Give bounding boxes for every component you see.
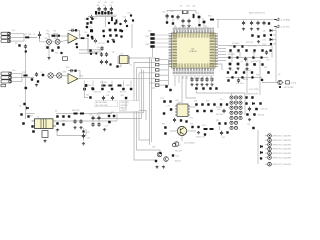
capacitor C55 — [261, 49, 263, 51]
capacitor C22 — [100, 60, 103, 64]
transistor Q2 — [85, 84, 88, 87]
blob — [163, 100, 166, 103]
opto LED D5 — [230, 101, 233, 104]
svg-text:SPKR OUT 6 BLK/RD: SPKR OUT 6 BLK/RD — [273, 157, 292, 159]
wire — [188, 106, 196, 108]
wire — [104, 16, 106, 27]
resistor RN4 — [155, 74, 159, 76]
blob — [251, 34, 254, 37]
svg-text:R34: R34 — [208, 16, 211, 18]
capacitor C58 — [243, 71, 245, 73]
resistor R74 — [204, 128, 208, 130]
capacitor C62 — [101, 88, 104, 91]
svg-text:R80 10K: R80 10K — [175, 151, 183, 153]
blob — [255, 108, 258, 111]
svg-text:C40: C40 — [186, 6, 189, 8]
capacitor C74 — [97, 122, 100, 126]
pot VR1 — [47, 39, 52, 44]
wire — [265, 157, 268, 159]
blob — [25, 87, 28, 90]
loop wire below transformer cluster — [57, 129, 86, 136]
wire — [218, 60, 226, 62]
wire — [85, 92, 89, 98]
svg-text:R93: R93 — [263, 44, 266, 46]
svg-text:Q7: Q7 — [241, 61, 243, 63]
wire — [226, 45, 272, 47]
blob — [164, 126, 167, 129]
blob — [170, 108, 173, 111]
wire — [218, 51, 226, 53]
transistor Q11 yellow circle — [177, 126, 186, 135]
blob — [279, 86, 281, 88]
connector J4 input jack CH2 — [1, 72, 12, 75]
wire — [26, 113, 35, 115]
blob — [87, 34, 89, 36]
svg-text:RA1: RA1 — [146, 35, 150, 38]
wire — [265, 163, 268, 165]
capacitor C53 — [262, 21, 265, 25]
wire — [202, 76, 204, 79]
connector J1 input jack CH1 — [1, 32, 11, 35]
ground — [228, 67, 231, 70]
wire — [265, 144, 268, 146]
diode D22 — [260, 151, 262, 153]
wire — [68, 29, 70, 31]
resistor R40 — [268, 22, 270, 24]
connector J14 jack — [268, 151, 272, 155]
opto LED D20 — [234, 126, 237, 129]
opto LED D9 — [234, 106, 237, 109]
resistor RN3 — [155, 69, 159, 71]
wire — [195, 11, 197, 14]
resistor R76 — [195, 103, 198, 106]
wire — [159, 74, 169, 76]
resistor R100 — [91, 18, 93, 20]
transistor Q8 — [237, 63, 240, 66]
wire — [265, 152, 268, 154]
svg-text:SPI CFG: SPI CFG — [246, 42, 254, 44]
resistor R82 — [245, 102, 248, 105]
wire — [53, 75, 56, 77]
wire — [174, 76, 176, 79]
capacitor C81 — [251, 96, 254, 99]
wire — [159, 69, 169, 71]
resistor R90 — [269, 49, 271, 51]
svg-text:R60 1K: R60 1K — [120, 92, 127, 94]
blob — [210, 110, 213, 113]
wire U1 left pin feeds — [155, 35, 169, 47]
wire — [53, 120, 117, 122]
label net table 2 — [120, 101, 140, 112]
capacitor C32 — [181, 19, 184, 23]
svg-text:VR1: VR1 — [45, 38, 49, 40]
capacitor C95 — [226, 103, 228, 105]
wire — [211, 76, 213, 85]
wire — [231, 52, 233, 62]
svg-text:C92: C92 — [222, 137, 225, 139]
blob — [270, 43, 272, 45]
svg-text:SCL SDA: SCL SDA — [229, 45, 238, 48]
capacitor C14 — [90, 29, 93, 32]
svg-text:C90: C90 — [266, 60, 269, 62]
blob — [227, 79, 229, 81]
capacitor C5 — [60, 52, 62, 54]
svg-text:C62: C62 — [107, 92, 110, 94]
transistor Q4 — [114, 29, 117, 32]
resistor R56 — [209, 87, 212, 90]
resistor R1 — [25, 36, 29, 38]
resistor R104 — [107, 40, 109, 42]
blob — [56, 115, 59, 118]
capacitor CB3 — [200, 77, 203, 81]
ground — [56, 129, 59, 132]
transistor Q15 — [253, 63, 256, 66]
wire — [95, 38, 97, 43]
resistor R33 — [193, 14, 195, 18]
svg-text:R9: R9 — [15, 43, 17, 45]
IC U4 small yellow — [120, 56, 129, 64]
svg-text:X1: X1 — [180, 6, 182, 8]
ground — [210, 83, 213, 86]
svg-text:C72: C72 — [96, 115, 99, 117]
wire — [30, 36, 38, 38]
wire — [159, 59, 169, 61]
resistor R68 — [108, 115, 111, 118]
capacitor C92 — [220, 131, 223, 135]
IC U1 pin names top inside — [173, 34, 213, 38]
opto LED D12 — [234, 111, 237, 114]
IC U1 pin stubs top — [173, 30, 213, 33]
wire U1 to U6 — [181, 76, 183, 104]
capacitor C3 — [94, 39, 97, 43]
wire — [159, 84, 169, 86]
blob — [253, 113, 256, 116]
wire — [273, 30, 276, 32]
resistor R27 — [109, 85, 113, 87]
transistor Q7 — [229, 63, 232, 66]
resistor R49 — [235, 71, 237, 73]
power flag +3.3V — [274, 18, 279, 21]
svg-text:D31: D31 — [263, 39, 266, 41]
resistor R67 — [80, 113, 84, 115]
connector J2 input jack CH1 — [1, 36, 11, 39]
wire — [152, 150, 160, 152]
resistor R83 — [259, 102, 261, 104]
svg-text:C86: C86 — [87, 138, 90, 140]
op-amp U2B — [68, 74, 78, 84]
svg-text:C17 R24: C17 R24 — [98, 43, 105, 45]
svg-text:MUTE /RST: MUTE /RST — [248, 94, 259, 96]
capacitor C11 electrolytic — [104, 7, 107, 12]
wire — [265, 148, 268, 150]
blob — [166, 21, 168, 23]
svg-text:OUT B GND: OUT B GND — [284, 87, 295, 89]
wire — [218, 64, 222, 70]
blob — [260, 157, 262, 159]
svg-text:MUTE: MUTE — [243, 79, 249, 81]
svg-text:C71: C71 — [89, 115, 92, 117]
svg-text:C31: C31 — [176, 19, 179, 21]
wire U1 top pin risers — [176, 27, 208, 31]
capacitor C65 — [111, 96, 114, 100]
connector J3 input jack CH1 — [1, 40, 11, 43]
svg-text:SPKR OUT 1 BLK/RD: SPKR OUT 1 BLK/RD — [273, 135, 292, 137]
wire — [83, 128, 85, 141]
resistor R57 — [169, 89, 171, 91]
svg-text:VR4: VR4 — [63, 72, 67, 74]
ground — [43, 140, 46, 143]
resistor R5 — [81, 37, 85, 39]
wire — [194, 76, 196, 79]
capacitor C77 — [197, 126, 199, 128]
opto LED D10 — [239, 106, 242, 109]
blob — [252, 127, 255, 130]
svg-text:C57: C57 — [230, 70, 233, 72]
resistor R28 — [118, 85, 122, 87]
transistor Q1 — [90, 29, 93, 32]
resistor R84 — [246, 113, 249, 116]
capacitor C104 — [113, 40, 115, 42]
resistor R62 — [125, 97, 128, 100]
resistor R43 — [245, 49, 247, 51]
svg-text:2N2222: 2N2222 — [175, 161, 181, 163]
wire — [21, 74, 23, 82]
resistor R71 — [180, 119, 182, 121]
ground — [190, 83, 193, 86]
wire — [128, 57, 155, 59]
wire — [96, 15, 114, 17]
resistor R3 — [57, 35, 60, 37]
capacitor C91 — [237, 78, 240, 82]
wire — [226, 57, 268, 59]
svg-text:AVDD DVDD 3V3: AVDD DVDD 3V3 — [249, 12, 266, 15]
svg-text:R84 1K: R84 1K — [258, 115, 265, 117]
capacitor C16 — [124, 19, 127, 23]
capacitor C69 — [73, 119, 76, 123]
blob — [165, 85, 168, 88]
svg-text:Q8 BC847: Q8 BC847 — [251, 61, 259, 63]
ground — [242, 28, 245, 31]
resistor R13 — [31, 78, 33, 80]
transformer T1 — [35, 119, 54, 129]
capacitor C31 — [176, 15, 179, 19]
capacitor C102 — [132, 19, 134, 21]
svg-text:R74: R74 — [202, 125, 205, 127]
wire — [190, 76, 192, 79]
svg-text:RA2: RA2 — [146, 43, 150, 46]
capacitor C56 — [244, 57, 247, 61]
svg-text:R42: R42 — [237, 52, 240, 54]
capacitor C72 — [97, 116, 100, 120]
blob — [260, 56, 262, 58]
wire — [275, 26, 277, 82]
wire — [186, 76, 188, 79]
svg-text:R5: R5 — [79, 35, 81, 37]
resistor R4 feedback — [75, 29, 77, 31]
capacitor C90 — [265, 50, 268, 54]
wire — [137, 67, 156, 69]
blob — [82, 130, 84, 132]
wire — [262, 82, 284, 84]
svg-text:R95 220: R95 220 — [216, 114, 223, 116]
capacitor C21 — [105, 52, 108, 56]
blob — [218, 122, 220, 124]
svg-text:VR2: VR2 — [54, 38, 58, 40]
svg-text:R25: R25 — [128, 13, 131, 15]
wire op-amp2 output bus — [78, 78, 156, 80]
resistor RS4 — [150, 45, 154, 48]
op-amp U2A — [68, 33, 78, 43]
opto LED D7 — [239, 101, 242, 104]
capacitor C59 — [241, 76, 243, 78]
blob — [120, 35, 122, 37]
wire — [218, 54, 226, 56]
capacitor C70 — [79, 119, 82, 123]
svg-text:U4: U4 — [112, 52, 114, 54]
IC U1 main processor — [172, 33, 216, 68]
svg-text:R58: R58 — [88, 85, 91, 87]
ground — [111, 102, 114, 105]
wire — [210, 76, 212, 79]
ground — [103, 128, 106, 131]
transistor Q3 — [109, 29, 112, 32]
svg-text:R49 4K7: R49 4K7 — [244, 70, 251, 72]
capacitor C33 — [187, 19, 190, 23]
ground — [73, 126, 76, 129]
resistor R18 — [98, 12, 100, 14]
wire — [244, 93, 246, 115]
resistor R60 — [130, 88, 133, 91]
IC U1 pin numbers band bottom outside — [173, 71, 215, 74]
connector J12 jack — [268, 143, 272, 147]
blob — [108, 121, 111, 124]
capacitor C85 — [100, 46, 103, 50]
wire — [232, 93, 246, 95]
svg-text:Q13: Q13 — [152, 147, 155, 149]
svg-text:+3.3V DIG: +3.3V DIG — [280, 26, 290, 28]
capacitor C20 — [100, 52, 103, 56]
wire — [134, 62, 155, 64]
svg-text:C41: C41 — [192, 6, 195, 8]
resistor R6 — [91, 36, 93, 38]
resistor RS3 — [150, 41, 154, 44]
resistor R92 — [267, 71, 269, 73]
opto LED D4 — [239, 96, 242, 99]
resistor R17 — [91, 87, 93, 89]
svg-text:R71: R71 — [190, 118, 193, 120]
capacitor C66 — [23, 103, 25, 105]
blob — [90, 53, 92, 55]
resistor R8 — [57, 46, 59, 48]
wire — [23, 34, 25, 41]
resistor R66 — [74, 113, 78, 115]
resistor R65 — [62, 115, 64, 118]
svg-text:C16: C16 — [123, 17, 126, 19]
wire — [198, 76, 200, 79]
wire — [218, 57, 226, 59]
diode D31 — [270, 38, 272, 40]
resistor R75 — [210, 128, 214, 130]
resistor R26 — [102, 85, 106, 87]
transistor Q12 — [174, 142, 179, 147]
wire — [88, 16, 116, 18]
wire — [174, 25, 176, 28]
resistor R101 — [91, 30, 93, 32]
wire — [177, 28, 179, 30]
svg-text:R16: R16 — [66, 67, 69, 69]
opto LED D19 — [230, 126, 233, 129]
wire — [68, 70, 69, 72]
wire — [116, 114, 118, 122]
crystal X1 — [183, 11, 187, 14]
resistor R41 — [229, 49, 231, 51]
capacitor C12 electrolytic — [110, 7, 113, 12]
wire — [168, 60, 170, 85]
blob — [163, 112, 166, 115]
power flag +3.3V D — [274, 25, 279, 28]
resistor R24 — [109, 34, 112, 37]
svg-text:C1: C1 — [33, 34, 35, 36]
blob — [103, 35, 105, 37]
connector J15 jack — [268, 156, 272, 160]
resistor R51 — [231, 76, 233, 78]
capacitor C80 — [203, 110, 206, 113]
svg-text:R61: R61 — [86, 95, 89, 97]
resistor RN6 — [155, 84, 159, 86]
svg-text:C64: C64 — [106, 95, 109, 97]
svg-text:R95: R95 — [216, 120, 219, 122]
blob — [109, 63, 111, 65]
opto LED D17 — [230, 121, 233, 124]
transistor Q9 — [278, 80, 282, 84]
ground — [200, 83, 203, 86]
pot VR3 — [48, 73, 53, 78]
ground — [181, 25, 184, 28]
svg-text:R62: R62 — [121, 95, 124, 97]
wire — [159, 64, 169, 66]
capacitor C2 feedback — [70, 29, 74, 32]
svg-text:R45 10K: R45 10K — [228, 54, 236, 56]
opto LED D11 — [230, 111, 233, 114]
capacitor C82 — [248, 107, 251, 112]
blob — [56, 122, 59, 125]
svg-text:SPKR OUT 3 BLK/RD: SPKR OUT 3 BLK/RD — [273, 144, 292, 146]
resistor R70 — [169, 100, 171, 102]
resistor R9 — [18, 44, 20, 46]
wire — [46, 33, 49, 35]
ground — [82, 142, 85, 145]
resistor R45 — [228, 56, 230, 58]
wire — [78, 38, 102, 52]
wire — [218, 45, 226, 47]
resistor R103 — [130, 14, 132, 16]
capacitor C86 — [82, 134, 85, 138]
capacitor C61 — [202, 87, 205, 90]
svg-text:Q5: Q5 — [197, 13, 199, 15]
wire — [265, 135, 268, 137]
svg-text:R68: R68 — [111, 112, 114, 114]
resistor RS2 — [150, 37, 154, 40]
svg-text:C62: C62 — [107, 85, 110, 87]
IC U1 pin names bottom inside — [173, 63, 213, 67]
blob — [90, 21, 93, 24]
wire — [159, 79, 169, 81]
wire — [218, 48, 226, 50]
blob — [185, 120, 187, 122]
wire — [60, 35, 68, 37]
wire — [226, 77, 262, 79]
IC U1 pin stubs bottom — [173, 68, 213, 71]
